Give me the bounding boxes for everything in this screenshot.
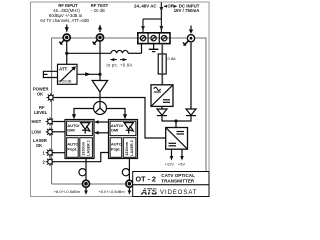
title block logo — [133, 185, 209, 197]
svg-text:to pc. +0.8A: to pc. +0.8A — [107, 63, 133, 68]
label RF INPUT spec text — [40, 3, 89, 23]
attenuator ATT — [58, 64, 78, 84]
wire ATT output — [77, 73, 100, 75]
svg-text:+8.0+/-0.5dBm: +8.0+/-0.5dBm — [98, 189, 125, 194]
svg-text:Popt.: Popt. — [67, 146, 77, 151]
manual adjust access — [43, 71, 57, 77]
fiber output 2 — [122, 159, 133, 195]
wire splitter to module 2 — [106, 109, 125, 117]
connector OUT1 — [83, 180, 90, 187]
wire module2 to module1 lower — [96, 132, 109, 134]
inductor L1 power choke — [111, 50, 128, 53]
title block type — [133, 172, 209, 185]
svg-text:1310nm: 1310nm — [125, 141, 129, 155]
svg-text:LEVEL: LEVEL — [34, 110, 48, 115]
ATS logo — [140, 187, 158, 196]
wire splitter to module 1 — [74, 109, 94, 117]
wire +5V output — [181, 149, 183, 158]
amplifier A1 — [92, 81, 107, 93]
outer frame — [31, 2, 210, 197]
LED low — [46, 128, 55, 137]
fuse F1 — [158, 43, 176, 84]
label AC/DC input — [134, 3, 200, 13]
svg-text:CATV OPTICAL: CATV OPTICAL — [161, 173, 195, 178]
diode D2 — [186, 109, 196, 116]
splitter SP1 — [94, 102, 107, 115]
connector J3 DC INPUT — [183, 26, 195, 46]
svg-text:0.8A: 0.8A — [168, 56, 177, 61]
wire diode bus — [162, 116, 191, 121]
fiber loop 2 — [122, 169, 129, 176]
wire AC bracket to terminals — [141, 19, 163, 33]
svg-text:+12V: +12V — [165, 162, 175, 167]
DC/DC converter U2 — [166, 128, 188, 150]
wire laser1 led — [52, 152, 65, 154]
wire RF input down — [66, 41, 68, 65]
node tap junction — [98, 73, 101, 76]
enclosure panel outline — [52, 38, 206, 184]
svg-text:OK: OK — [37, 91, 43, 96]
wire DC input down — [190, 42, 192, 109]
terminal block X1 — [138, 33, 170, 44]
svg-text:OK: OK — [36, 143, 42, 148]
wire amp to splitter — [99, 92, 101, 102]
LED power ok — [47, 93, 56, 102]
svg-text:+8.0+/-0.5dBm: +8.0+/-0.5dBm — [54, 189, 81, 194]
laser diode LD1 — [81, 123, 90, 134]
LED laser1 — [46, 148, 55, 157]
svg-text:LOW: LOW — [32, 130, 42, 135]
connector OUT2 — [126, 180, 133, 187]
svg-text:- 20 dB: - 20 dB — [91, 8, 105, 13]
svg-text:OMI: OMI — [111, 128, 118, 133]
svg-text:1310nm: 1310nm — [82, 141, 86, 155]
wire AC/DC to diode — [161, 106, 163, 109]
wire high led — [52, 121, 65, 123]
svg-text:ATT: ATT — [59, 66, 68, 71]
wire power-over-coax line — [67, 43, 142, 53]
wire module2 to module1 upper — [96, 121, 109, 123]
wire bus to DC/DC — [175, 121, 177, 128]
laser diode LD2 — [124, 123, 133, 134]
wire laser2 led — [52, 153, 108, 162]
fiber loop 1 — [79, 169, 86, 176]
svg-text:LASER 1: LASER 1 — [86, 140, 90, 156]
wire RF test tap — [99, 41, 101, 74]
svg-text:2: 2 — [43, 160, 46, 165]
connector J1 RF INPUT — [59, 25, 70, 45]
wire power rail to DC/DC — [53, 98, 166, 139]
ground symbol — [149, 43, 159, 51]
svg-text:15V / 750mA: 15V / 750mA — [174, 8, 201, 13]
label RF TEST — [91, 3, 109, 13]
connector J2 RF TEST — [93, 25, 104, 45]
svg-text:24..48V AC: 24..48V AC — [134, 3, 157, 8]
wire to amplifier — [99, 74, 101, 80]
wire low led — [52, 131, 65, 133]
fiber output 1 — [79, 159, 90, 195]
svg-text:LASER 2: LASER 2 — [130, 140, 134, 156]
svg-text:TRANSMITTER: TRANSMITTER — [161, 179, 195, 184]
svg-text:HIGT: HIGT — [32, 119, 42, 124]
label bidirectional arrows — [110, 58, 126, 61]
diode D1 — [157, 109, 167, 116]
AC/DC converter U1 — [151, 85, 173, 107]
LED high — [46, 117, 55, 126]
svg-text:OMI: OMI — [67, 128, 74, 133]
svg-text:+5V: +5V — [178, 162, 186, 167]
label OR left arrow — [164, 5, 178, 8]
svg-text:1: 1 — [43, 151, 46, 156]
LED laser2 — [46, 157, 55, 166]
svg-text:64 TV channels, ATT=0dB: 64 TV channels, ATT=0dB — [40, 18, 89, 23]
svg-text:OT - 2: OT - 2 — [136, 174, 156, 183]
node bus junction — [174, 119, 177, 122]
laser module 1 — [65, 120, 94, 159]
node power insert junction — [65, 52, 68, 55]
wire AC feed arrow from label — [159, 3, 163, 20]
svg-text:VIDEOSAT: VIDEOSAT — [160, 190, 198, 196]
wire +12V output — [171, 149, 173, 158]
laser module 2 — [109, 120, 138, 159]
svg-text:Popt.: Popt. — [111, 146, 121, 151]
